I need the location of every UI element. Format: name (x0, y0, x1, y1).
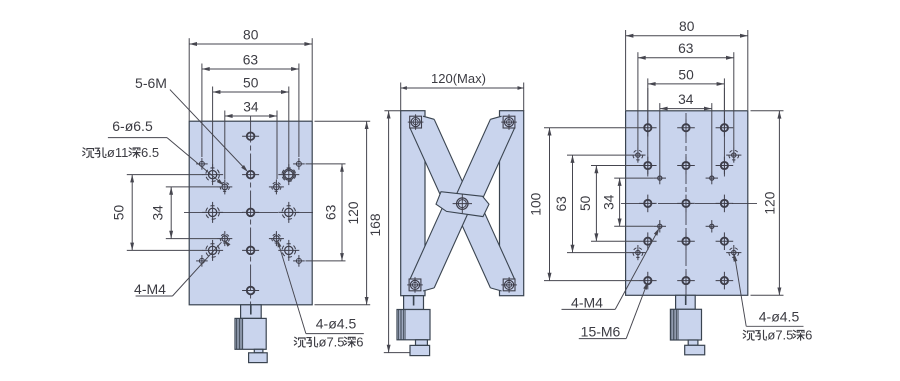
M6 hole centre middle (242, 209, 259, 217)
label 4-ø4.5 right view with leader (734, 254, 813, 343)
M6 hole grid r2c1 (639, 157, 657, 175)
label 6-ø6.5 counterbore with leader (83, 118, 224, 186)
pivot bolt top-right (501, 114, 517, 130)
M4 hole right view upper-left (654, 172, 666, 184)
scissor arm upper-right to centre (451, 116, 515, 207)
label 4-ø4.5 counterbore with leader (277, 240, 364, 350)
scissor arm upper-left to centre (410, 116, 474, 207)
svg-text:4-ø4.5: 4-ø4.5 (316, 316, 357, 332)
M6 hole centre-top (242, 132, 259, 140)
pivot bolt top-left (408, 114, 424, 130)
middle view knob neck (416, 340, 428, 346)
M6 hole grid r5c3 (716, 272, 734, 290)
svg-text:6: 6 (805, 328, 812, 343)
svg-text:6: 6 (356, 334, 363, 349)
svg-text:34: 34 (243, 100, 259, 115)
svg-text:168: 168 (368, 213, 383, 236)
svg-text:63: 63 (678, 41, 694, 56)
dimension 34 top (left view) (225, 100, 277, 180)
pivot bolt bottom-left (407, 277, 423, 293)
dimension 34 top (right view) (660, 92, 712, 172)
counterbore hole 6.5 mid-right (278, 202, 299, 223)
M6 hole grid r4c1 (639, 232, 657, 250)
svg-text:50: 50 (678, 67, 694, 82)
svg-text:63: 63 (243, 53, 259, 68)
dimension 63 right (left view) (306, 164, 346, 261)
M4 hole right view upper-right (706, 172, 718, 184)
dimension 120(Max) top (middle view) (401, 71, 524, 111)
M6 hole grid r3c1 (639, 195, 657, 213)
left view lead-screw stem (241, 304, 262, 318)
middle view stem (404, 295, 424, 310)
dimension 34 left (right view) (602, 178, 654, 226)
svg-text:4-M4: 4-M4 (571, 294, 603, 310)
left view top plate (plan) (189, 121, 312, 305)
dimension 80 top (left view) (189, 28, 312, 121)
counterbore hole 6.5 lower-left (202, 240, 223, 261)
right view knob foot (685, 345, 705, 355)
M4 hole upper-left (217, 179, 232, 194)
hole 4.5 lower-left (196, 255, 208, 267)
svg-text:120(Max): 120(Max) (431, 71, 486, 86)
left view vertical centerline (250, 117, 252, 319)
label 4-M4 right view with leader (562, 228, 660, 311)
left view knurled knob (235, 318, 266, 349)
right view right column centerline (723, 88, 725, 177)
left view knob foot (249, 353, 268, 363)
dimension 50 top (right view) (648, 67, 725, 119)
M6 hole centre upper (242, 171, 259, 179)
counterbore hole 4.5 right view lower-right (726, 245, 741, 260)
right view left column centerline (647, 88, 649, 177)
M4 hole lower-right (269, 231, 284, 246)
dimension 50 top (left view) (213, 76, 289, 168)
svg-text:50: 50 (112, 205, 127, 221)
M4 hole right view lower-left (654, 220, 666, 232)
counterbore hole 6.5 lower-right (278, 240, 299, 261)
M6 hole grid r5c1 (639, 272, 657, 290)
svg-text:50: 50 (243, 76, 259, 91)
M6 hole grid r1c3 (716, 119, 734, 137)
middle view knob foot (410, 345, 430, 355)
svg-text:80: 80 (243, 28, 259, 43)
M4 hole lower-left (217, 231, 232, 246)
dimension 100 left (right view) (529, 128, 640, 281)
M6 hole grid r3c2 (677, 195, 695, 213)
svg-text:34: 34 (678, 92, 694, 107)
dimension 120 right (left view) (315, 121, 371, 305)
M6 hole grid r2c2 (677, 157, 695, 175)
dimension 50 left (right view) (578, 166, 639, 242)
svg-text:4-M4: 4-M4 (134, 281, 166, 297)
svg-text:63: 63 (324, 204, 339, 220)
svg-text:34: 34 (602, 194, 617, 210)
dimension 50 left (left view) (112, 175, 203, 251)
M6 hole grid r3c3 (716, 195, 734, 213)
M6 hole grid r4c3 (716, 232, 734, 250)
hole 4.5 upper-left (196, 158, 208, 170)
hole 4.5 lower-right (293, 255, 305, 267)
svg-text:ø11: ø11 (107, 145, 128, 160)
right view middle row centerline (621, 202, 757, 204)
svg-text:50: 50 (578, 195, 593, 211)
label 15-M6 with leader (579, 282, 648, 340)
M6 hole grid r5c2 (677, 272, 695, 290)
scissor arm lower-right to centre (451, 200, 515, 291)
svg-text:5-6M: 5-6M (135, 75, 167, 91)
middle view left pillar (401, 111, 425, 296)
dimension 34 left (left view) (151, 187, 218, 239)
left view middle row centerline (184, 211, 316, 213)
svg-text:6.5: 6.5 (141, 145, 159, 160)
svg-text:4-ø4.5: 4-ø4.5 (759, 309, 800, 325)
M6 hole centre-bottom (242, 287, 259, 295)
scissor arm lower-left to centre (410, 200, 474, 291)
centre pivot bolt (453, 194, 472, 213)
dimension 63 left (right view) (554, 155, 631, 253)
scissor centre joint boss (436, 192, 489, 217)
counterbore hole 6.5 upper-right extra ring (278, 164, 299, 185)
M4 hole upper-right (269, 179, 284, 194)
svg-text:120: 120 (762, 191, 777, 214)
counterbore hole 6.5 mid-left (202, 202, 223, 223)
M6 hole grid r1c2 (677, 119, 695, 137)
svg-text:63: 63 (554, 196, 569, 212)
M6 hole grid r2c3 (716, 157, 734, 175)
right view knob neck (688, 340, 698, 345)
left view knob neck (254, 349, 263, 353)
svg-text:6-ø6.5: 6-ø6.5 (112, 118, 153, 134)
svg-text:ø7.5: ø7.5 (767, 328, 793, 343)
dimension 120 right (right view) (751, 111, 784, 295)
hole 4.5 upper-right (293, 158, 305, 170)
svg-text:ø7.5: ø7.5 (319, 334, 345, 349)
M6 hole centre lower (242, 247, 259, 255)
svg-text:15-M6: 15-M6 (581, 324, 621, 340)
svg-text:100: 100 (529, 192, 544, 215)
middle view knurled knob (397, 310, 430, 340)
label 4-M4 with leader (134, 240, 230, 297)
right view stem (676, 295, 696, 310)
svg-text:34: 34 (151, 205, 166, 221)
M4 hole right view lower-right (706, 220, 718, 232)
pivot bolt bottom-right (501, 277, 517, 293)
right view bottom plate (plan) (626, 111, 748, 295)
M6 hole grid r4c2 (677, 232, 695, 250)
right view knurled knob (670, 309, 701, 340)
middle view right pillar (500, 111, 524, 296)
right view vertical centerline (685, 113, 687, 296)
dimension 63 top (right view) (638, 41, 734, 147)
svg-text:120: 120 (346, 201, 361, 224)
dimension 80 top (right view) (626, 19, 748, 110)
dimension 168 right (middle view height) (368, 111, 414, 353)
counterbore hole 4.5 right view upper-left (630, 148, 645, 163)
counterbore hole 4.5 right view upper-right (726, 148, 741, 163)
M6 hole grid r1c1 (639, 119, 657, 137)
counterbore hole 6.5 upper-left (202, 164, 223, 185)
counterbore hole 4.5 right view lower-left (630, 245, 645, 260)
label 5-6M with leader (135, 75, 248, 172)
dimension 63 top (left view) (202, 53, 299, 158)
svg-text:80: 80 (679, 19, 695, 34)
